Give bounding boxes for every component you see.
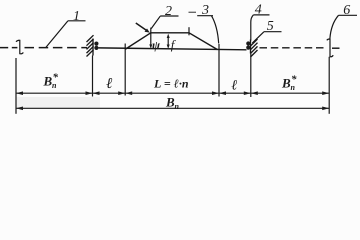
svg-text:ℓ: ℓ [231,79,237,94]
svg-text:B: B [281,75,291,90]
svg-text:B: B [43,73,53,88]
svg-text:п: п [175,102,180,111]
svg-text:2: 2 [165,4,172,19]
svg-text:ℓ: ℓ [106,76,112,92]
svg-text:*: * [291,74,297,86]
svg-text:4: 4 [255,3,262,18]
svg-text:ψ: ψ [152,38,161,52]
svg-text:5: 5 [267,19,274,34]
svg-text:*: * [53,72,59,84]
svg-text:L = ℓ·n: L = ℓ·n [153,77,189,91]
svg-text:3: 3 [201,3,209,18]
svg-text:6: 6 [343,3,350,18]
svg-text:1: 1 [73,9,80,24]
svg-text:B: B [165,95,175,110]
